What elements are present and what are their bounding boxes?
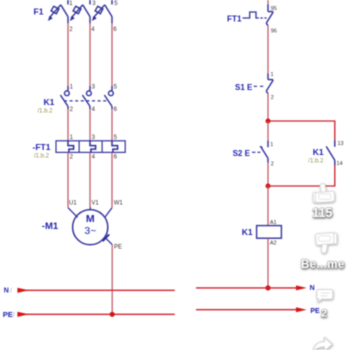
svg-text:Be...me: Be...me	[301, 259, 345, 271]
motor M1 body	[73, 210, 108, 245]
K1 auxiliary contact 13-14	[326, 140, 335, 165]
wire K1.4 to FT1.3	[89, 109, 91, 141]
svg-text:/: /	[10, 287, 12, 294]
wire K1.6 to FT1.5	[111, 109, 113, 141]
stop button S1 (NC)	[266, 74, 273, 94]
svg-text:/1.b.2: /1.b.2	[34, 154, 50, 160]
svg-text:1: 1	[270, 142, 273, 148]
PE rail arrow (right)	[296, 307, 307, 312]
FT1 thermal trip symbol	[243, 12, 259, 18]
wire L1 to FT1.95	[267, 0, 269, 4]
svg-text:FT1: FT1	[227, 14, 242, 23]
svg-text:F1: F1	[34, 6, 44, 16]
K1 mechanical link (dashed)	[64, 100, 109, 102]
FT1 heater element pole 1	[68, 141, 74, 153]
wire L1: F1.2 to K1.1	[67, 23, 69, 86]
wire motor PE to PE rail	[111, 245, 113, 315]
svg-text:3~: 3~	[84, 225, 96, 237]
PE rail (left page)	[22, 313, 175, 315]
PE connection lead from motor	[105, 237, 113, 245]
svg-text:6: 6	[114, 155, 118, 161]
svg-text:S1 E: S1 E	[235, 83, 253, 92]
wire S1.2 to node A	[267, 94, 269, 121]
svg-text:2: 2	[70, 107, 74, 113]
wire FT1.2 to motor U1	[67, 152, 69, 207]
svg-text:2: 2	[69, 27, 73, 33]
N rail (right page)	[196, 287, 300, 289]
FT1 NC contact 95-96	[266, 4, 273, 25]
svg-text:115: 115	[312, 206, 332, 220]
svg-text:4: 4	[92, 155, 96, 161]
svg-text:2: 2	[271, 161, 274, 167]
svg-text:3: 3	[92, 1, 96, 7]
overlay: comment bubble icon	[317, 290, 333, 302]
svg-text:A1: A1	[270, 220, 277, 226]
overlay: thumbs-up icon	[313, 183, 334, 202]
svg-text:14: 14	[337, 161, 343, 167]
branch wire node A to K1 aux (top)	[268, 121, 335, 140]
svg-text:6: 6	[114, 107, 118, 113]
branch wire K1 aux to node B	[268, 165, 335, 186]
svg-text:N: N	[310, 285, 315, 292]
svg-text:-FT1: -FT1	[33, 142, 51, 152]
wire L2: F1.4 to K1.3	[89, 23, 91, 86]
svg-text:1: 1	[70, 84, 74, 90]
junction coil on N rail	[265, 285, 270, 290]
PE rail source arrow (left)	[17, 312, 28, 317]
overlay: share icon	[313, 338, 332, 350]
svg-text:K1: K1	[242, 227, 253, 237]
N rail (left page)	[22, 289, 175, 291]
svg-text:5: 5	[114, 1, 118, 7]
svg-text:4: 4	[92, 107, 96, 113]
svg-text:3: 3	[92, 84, 96, 90]
N rail source arrow (left)	[17, 288, 28, 293]
junction: motor PE on PE rail	[110, 312, 115, 317]
svg-text:95: 95	[271, 6, 277, 12]
svg-text:PE: PE	[310, 308, 320, 315]
FT1 heater element pole 3	[112, 141, 118, 153]
svg-text:/1.b.2: /1.b.2	[38, 109, 54, 115]
svg-text:2: 2	[321, 307, 327, 319]
svg-text:S2 E: S2 E	[233, 149, 251, 158]
motor lead U1	[68, 208, 78, 218]
PE rail (right page)	[196, 309, 300, 311]
motor lead W1	[105, 208, 112, 218]
svg-text:-M1: -M1	[42, 221, 59, 232]
S1 actuator dashes	[254, 85, 263, 87]
svg-text:/1.b.2: /1.b.2	[308, 158, 324, 164]
svg-text:M: M	[86, 213, 95, 225]
svg-text:5: 5	[114, 84, 118, 90]
fuse-switch F1 pole 3	[92, 0, 112, 23]
svg-text:A2: A2	[270, 240, 277, 246]
wire S2.2 to node B	[267, 163, 269, 187]
svg-text:N: N	[4, 288, 9, 295]
fuse-switch F1 pole 2	[70, 0, 90, 23]
overlay: thumbs-down icon	[316, 233, 337, 253]
contactor K1 main contact pole 3	[104, 86, 113, 109]
contactor K1 main contact pole 2	[82, 86, 91, 109]
svg-text:PE: PE	[3, 310, 13, 319]
svg-text:W1: W1	[114, 200, 124, 206]
junction node B	[266, 184, 271, 189]
wire node A to S2.1	[267, 121, 269, 141]
wire FT1.96 to S1.1	[267, 26, 269, 74]
svg-text:K1: K1	[313, 147, 324, 157]
wire L3: F1.6 to K1.5	[111, 23, 113, 86]
svg-text:96: 96	[271, 28, 277, 34]
motor lead V1	[89, 207, 91, 210]
PE slash marker	[103, 234, 110, 241]
overload relay FT1 box	[56, 141, 125, 153]
FT1 trip linkage dashes	[260, 17, 266, 19]
svg-text:U1: U1	[69, 200, 77, 206]
svg-text:6: 6	[113, 27, 117, 33]
fuse-switch F1 pole 1	[48, 0, 68, 23]
svg-text:13: 13	[338, 141, 344, 147]
svg-text:2: 2	[271, 95, 274, 101]
wire node B to coil A1	[267, 186, 269, 226]
S2 actuator dashes	[252, 151, 260, 153]
wire coil A2 to N rail	[267, 238, 269, 288]
svg-text:2: 2	[70, 155, 74, 161]
wire FT1.4 to motor V1	[89, 152, 91, 207]
svg-text:V1: V1	[91, 200, 99, 206]
N rail arrow (right)	[296, 285, 307, 290]
contactor K1 main contact pole 1	[60, 86, 69, 109]
svg-text:/: /	[13, 312, 15, 319]
svg-text:4: 4	[91, 27, 95, 33]
svg-text:1: 1	[271, 72, 274, 78]
FT1 heater element pole 2	[90, 141, 96, 153]
contactor coil K1	[257, 226, 282, 239]
svg-text:1: 1	[69, 1, 73, 7]
svg-text:PE: PE	[114, 245, 122, 251]
junction node A	[266, 119, 271, 124]
wire FT1.6 to motor W1	[111, 152, 113, 207]
start button S2 (NO)	[260, 141, 268, 163]
wire K1.2 to FT1.1	[67, 109, 69, 141]
svg-text:K1: K1	[44, 97, 55, 107]
